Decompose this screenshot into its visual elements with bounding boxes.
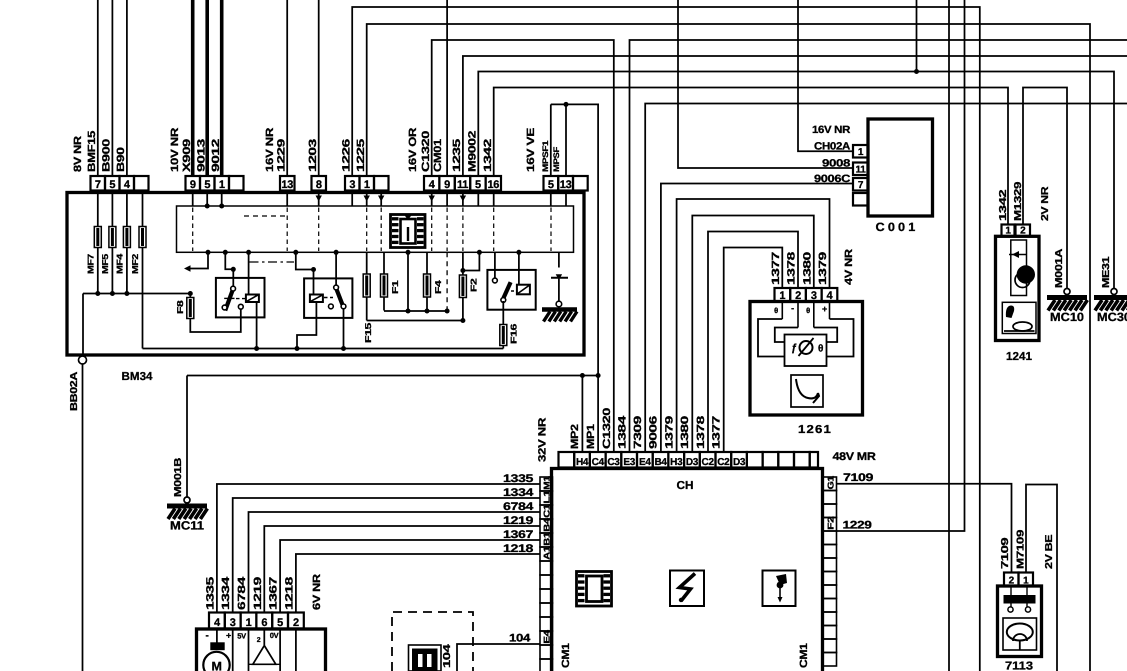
svg-text:C2: C2 [717, 457, 730, 468]
svg-text:9006C: 9006C [814, 173, 851, 185]
svg-text:F1: F1 [390, 280, 400, 294]
svg-text:MP2: MP2 [569, 424, 581, 449]
svg-text:1229: 1229 [843, 520, 872, 532]
CH left connector column [540, 477, 553, 491]
svg-text:1384: 1384 [617, 416, 629, 449]
svg-text:H3: H3 [670, 457, 683, 468]
svg-text:M7109: M7109 [1016, 529, 1027, 569]
wire B900 (pin 5 to top edge) [111, 0, 113, 176]
svg-text:B90: B90 [115, 147, 127, 172]
node dots on inner box bottom edge [206, 250, 211, 255]
svg-text:CH02A: CH02A [814, 141, 851, 153]
wire 6784 (CH to motor unit) [249, 512, 541, 613]
motor M symbol [216, 629, 218, 644]
C001 pin 7 [853, 178, 868, 191]
1261 curve icon box [791, 375, 823, 407]
svg-text:1203: 1203 [307, 139, 319, 172]
node junction on M9002 line [914, 69, 919, 74]
svg-text:M: M [211, 660, 221, 671]
svg-text:5: 5 [475, 179, 481, 191]
C001 blank pin [853, 193, 868, 206]
svg-text:7309: 7309 [632, 416, 644, 449]
svg-text:5: 5 [548, 179, 554, 191]
motor unit internal pin wires [232, 629, 234, 671]
svg-text:D3: D3 [686, 457, 699, 468]
svg-text:BB02A: BB02A [69, 372, 80, 411]
connector pin 13 (16V NR) [280, 176, 295, 191]
wire 7109 (CH pin G1 to 7113 pin 2) [837, 484, 1012, 573]
svg-text:16: 16 [487, 179, 499, 191]
wire MPSF jumper (BM34 pins 5/13 group5 to MP1 riser) [550, 104, 552, 176]
wire 1384 (CH riser to right page edge) [630, 40, 1127, 452]
CH top connector row [559, 452, 575, 468]
svg-text:B4: B4 [542, 518, 552, 532]
relay R2 [304, 278, 352, 318]
wire BB02A down to page bottom [82, 364, 84, 671]
svg-text:1342: 1342 [482, 139, 494, 172]
svg-text:-: - [791, 303, 794, 313]
svg-text:2V NR: 2V NR [1040, 186, 1051, 221]
svg-text:1379: 1379 [664, 416, 676, 449]
connector circle BB02A on BM34 bottom [79, 356, 87, 364]
7113 gauge [1003, 618, 1037, 650]
ground MC10 [1064, 289, 1070, 295]
svg-text:1334: 1334 [503, 487, 535, 499]
wire 9008 (top edge down to C001 pin 11) [678, 0, 853, 168]
svg-text:1261: 1261 [798, 424, 832, 436]
svg-text:E4: E4 [639, 457, 651, 468]
svg-text:5: 5 [277, 617, 283, 629]
pin drops into inner box [192, 191, 194, 207]
wire F8 to relay R1 contact [190, 309, 241, 332]
triangle symbol in motor unit [263, 629, 265, 646]
svg-text:M9002: M9002 [467, 130, 479, 172]
wire link inner box to fuse bus [407, 252, 409, 311]
svg-text:6784: 6784 [503, 501, 535, 513]
motor unit box [197, 629, 326, 671]
node dot MP1 [596, 373, 601, 378]
svg-text:θ: θ [818, 344, 823, 355]
wire X909 stub with arrow below inner box [189, 252, 209, 268]
svg-text:6V NR: 6V NR [311, 573, 323, 610]
svg-text:MPSF1: MPSF1 [541, 140, 550, 172]
svg-text:C001: C001 [876, 220, 919, 234]
1241 arrow symbol [1009, 254, 1026, 256]
wire X909 (pin 9 to top edge, heavy) [191, 0, 195, 176]
wire 1335 (CH to motor unit) [217, 484, 540, 613]
engine control unit CH box [552, 469, 823, 671]
node dot MP2 [580, 373, 585, 378]
node MPSF junction [564, 102, 569, 107]
wire 1367 (CH to motor unit) [280, 540, 540, 613]
C001 pin 11 [853, 163, 868, 176]
wire relay R1 coil return to bus [256, 302, 258, 349]
connector pins 3 1 [345, 176, 360, 191]
svg-text:L1: L1 [542, 490, 552, 504]
svg-text:C3: C3 [607, 457, 620, 468]
fuse MF5 [111, 193, 113, 227]
svg-text:1367: 1367 [268, 577, 280, 610]
wire 1380 (CH riser to 1261 pin 3) [692, 216, 814, 453]
svg-text:1378: 1378 [786, 252, 798, 285]
fuse box BM34 outline [67, 193, 584, 356]
svg-text:1: 1 [246, 617, 252, 629]
svg-text:1380: 1380 [679, 416, 691, 449]
wire feed relay R2 coil [296, 252, 314, 294]
svg-text:13: 13 [281, 179, 293, 191]
svg-text:F2: F2 [826, 516, 836, 530]
internal ground connector inside BM34 [558, 252, 560, 267]
bus F15-F2 [367, 320, 463, 322]
svg-text:5: 5 [109, 179, 115, 191]
svg-text:16V OR: 16V OR [407, 127, 419, 172]
wire 1378 (CH riser to 1261 pin 2) [708, 232, 798, 453]
svg-text:E3: E3 [623, 457, 635, 468]
sensor 104 icon [409, 645, 442, 671]
svg-text:1218: 1218 [283, 577, 295, 610]
svg-text:F15: F15 [363, 322, 373, 343]
svg-text:2: 2 [257, 637, 261, 644]
wire 1225 (BM34 pin 1 to top channel, down at x1090) [367, 24, 1090, 671]
wire 1218 (CH to motor unit) [296, 554, 540, 613]
svg-text:1342: 1342 [998, 189, 1009, 221]
wire 104 (sensor to CH pin E4) [457, 644, 540, 671]
relay R1 [216, 278, 265, 318]
1241 lower chamber [1002, 302, 1036, 333]
svg-text:CM1: CM1 [560, 643, 572, 668]
svg-text:C2: C2 [702, 457, 715, 468]
svg-text:1334: 1334 [220, 577, 232, 610]
svg-text:2V BE: 2V BE [1044, 534, 1055, 569]
wire 1377 (CH riser to 1261 pin 1) [724, 248, 783, 453]
svg-text:7109: 7109 [1000, 537, 1011, 569]
svg-text:16V VE: 16V VE [525, 128, 537, 172]
svg-text:MP1: MP1 [585, 424, 597, 449]
svg-text:9006: 9006 [648, 416, 660, 449]
fuel gauge unit 7113 box [998, 586, 1042, 657]
svg-text:4V NR: 4V NR [843, 248, 855, 285]
chip icon inside BM34 inner box [391, 215, 426, 248]
wire 9012 (pin 1 to top edge, heavy) [220, 0, 224, 176]
pump unit 1241 box [996, 236, 1040, 340]
wire MP1 (down to CH connector) [597, 104, 599, 452]
svg-text:F8: F8 [175, 300, 185, 314]
connector C001 box [868, 119, 933, 216]
7113 pin 1 [1019, 573, 1034, 587]
svg-text:MC10: MC10 [1050, 310, 1084, 324]
wire stub from top edge to M9002 line [916, 0, 918, 72]
svg-text:1219: 1219 [252, 577, 264, 610]
svg-text:M1: M1 [542, 476, 552, 490]
svg-text:ƒ: ƒ [791, 342, 797, 354]
wire C1320 (BM34 pin 4 over to CH connector) [432, 40, 614, 452]
svg-text:1225: 1225 [355, 139, 367, 172]
fuse F16 [500, 325, 507, 346]
svg-text:9: 9 [190, 179, 196, 191]
lightning icon inside CH [670, 571, 704, 607]
svg-text:1367: 1367 [503, 529, 533, 541]
svg-text:1379: 1379 [817, 252, 829, 285]
1241 pin 1 [1002, 225, 1015, 237]
ground MC11 [184, 497, 190, 503]
dashed enclosure for sensor 104 [392, 612, 473, 671]
svg-text:+: + [822, 304, 827, 314]
dashed channels inside inner box [192, 208, 194, 252]
svg-text:MF2: MF2 [130, 253, 140, 274]
wire M001B (MC11 ground to MP1/MP2 risers) [186, 376, 188, 498]
fuse MF2 [142, 193, 144, 227]
wire MP2 down to CH [581, 376, 583, 453]
svg-text:MF5: MF5 [100, 253, 110, 274]
svg-text:6784: 6784 [236, 577, 248, 610]
svg-text:D3: D3 [733, 457, 746, 468]
svg-text:0V: 0V [270, 631, 279, 640]
fuse F4 [426, 252, 428, 274]
svg-text:8V NR: 8V NR [72, 135, 84, 172]
svg-text:1235: 1235 [451, 139, 463, 172]
svg-text:H4: H4 [576, 457, 589, 468]
svg-text:104: 104 [509, 633, 531, 645]
wire 9013 (pin 5 to top edge, heavy) [205, 0, 209, 176]
motor unit connector pins 4 3 1 6 5 2 [209, 613, 225, 629]
svg-text:1377: 1377 [711, 416, 723, 449]
node dots on fuse bus [95, 291, 100, 296]
svg-text:C1320: C1320 [420, 130, 432, 172]
connector group 10V NR pins 9 5 1 [186, 176, 201, 191]
svg-text:X909: X909 [181, 139, 193, 172]
svg-text:F2: F2 [469, 278, 479, 292]
svg-text:13: 13 [560, 179, 572, 191]
svg-text:1: 1 [858, 147, 864, 158]
CH right connector column [823, 477, 837, 491]
C001 pin 1 [853, 145, 868, 158]
svg-text:ME31: ME31 [1101, 256, 1112, 288]
svg-text:1219: 1219 [503, 515, 533, 527]
svg-text:B4: B4 [654, 457, 667, 468]
svg-text:MC11: MC11 [170, 519, 204, 533]
svg-text:9008: 9008 [822, 158, 851, 170]
svg-text:48V MR: 48V MR [833, 451, 876, 463]
svg-text:7113: 7113 [1005, 661, 1033, 671]
svg-text:BMF15: BMF15 [86, 130, 98, 172]
wire relay R2 switch to bottom bus [343, 309, 345, 349]
svg-text:9012: 9012 [210, 139, 222, 172]
svg-text:7109: 7109 [843, 472, 873, 484]
svg-text:MF7: MF7 [86, 253, 96, 274]
wire 1226 (BM34 pin 3 to top channel, down right side) [352, 7, 980, 671]
1241 pin 2 [1016, 225, 1031, 237]
fuse MF7 [97, 193, 99, 227]
wire 1203 (pin 8 to top edge) [318, 0, 320, 176]
chip icon inside CH [577, 572, 612, 607]
svg-text:8: 8 [316, 179, 322, 191]
1241 pump circles [1017, 265, 1035, 283]
svg-text:+: + [226, 631, 231, 641]
1261 center sensor box [785, 335, 827, 367]
svg-text:1229: 1229 [276, 139, 288, 172]
svg-text:32V NR: 32V NR [537, 417, 549, 462]
node dot R1 on bottom bus [254, 346, 259, 351]
relay R3 [487, 270, 535, 310]
wire 1219 (CH to motor unit) [264, 526, 540, 613]
wire 1229 (pin 13 to top edge) [286, 0, 288, 176]
7113 resistive bar [1004, 596, 1035, 604]
1241 inner chamber [1011, 240, 1027, 296]
1261 pin stubs into brackets [781, 302, 783, 320]
wire relay R2 coil return [297, 302, 316, 349]
fuse MF4 [126, 193, 128, 227]
wire BMF15 (pin 7 to top edge) [97, 0, 99, 176]
svg-text:1241: 1241 [1006, 351, 1033, 363]
svg-text:7: 7 [858, 180, 864, 191]
chain link between relays [250, 261, 295, 263]
svg-text:104: 104 [442, 644, 453, 668]
svg-text:M1329: M1329 [1013, 181, 1024, 221]
svg-text:C1320: C1320 [601, 407, 613, 449]
svg-text:F16: F16 [509, 323, 519, 344]
BM34 inner control module box [177, 206, 574, 252]
wire 1379 (CH riser to 1261 pin 4) [677, 199, 830, 452]
svg-text:1: 1 [364, 179, 370, 191]
7113 pin 2 [1004, 573, 1019, 587]
node dot R2 on bottom bus [341, 346, 346, 351]
bottom bus inside BM34 [143, 348, 504, 350]
bus from MF fuses to F8 and BB02A [83, 293, 190, 295]
connector pin 8 [312, 176, 327, 191]
svg-text:3: 3 [349, 179, 355, 191]
svg-text:9013: 9013 [196, 139, 208, 172]
wire 1229 (CH pin F2 to top edge) [837, 0, 965, 531]
dashed link CM01 channel to fuse bus [446, 252, 448, 311]
svg-text:1380: 1380 [802, 252, 814, 285]
svg-text:M001A: M001A [1054, 249, 1065, 288]
wire B90 (pin 4 to top edge) [126, 0, 128, 176]
wire feed relay R3 switch [463, 252, 480, 270]
svg-text:C4: C4 [592, 457, 605, 468]
throttle housing 1261 box [750, 302, 863, 416]
svg-text:A1: A1 [542, 546, 552, 560]
1261 inner bracket [775, 328, 798, 343]
wire CM01 (BM34 pin 9 group4 straight up to top edge) [446, 0, 448, 176]
wire 1334 (CH to motor unit) [233, 498, 540, 613]
wire relay R3 switch to fuse F16 [502, 301, 504, 325]
fuse F8 [189, 294, 191, 298]
svg-text:MPSF: MPSF [552, 147, 561, 172]
wire M7109 (7113 pin 1 down right side) [1026, 485, 1057, 671]
svg-text:1226: 1226 [341, 139, 353, 172]
svg-text:CH: CH [677, 480, 694, 492]
svg-text:C1: C1 [542, 504, 552, 518]
svg-text:5V: 5V [237, 632, 246, 641]
connector group 16V VE pins 5 13 [544, 176, 559, 191]
connector group 8V NR pins 7 5 4 [91, 176, 106, 191]
svg-text:B1: B1 [542, 532, 552, 546]
connector group 16V OR pins 4 9 11 5 16 [424, 176, 439, 191]
ground MC30 [1111, 289, 1117, 295]
connector pins 1 2 3 4 of 1261 [775, 288, 791, 302]
svg-text:16V NR: 16V NR [264, 127, 276, 172]
svg-text:B900: B900 [101, 139, 113, 172]
svg-text:M001B: M001B [173, 458, 184, 497]
svg-text:CM1: CM1 [798, 643, 810, 668]
wire CH02A (top edge down to C001 pin 1) [798, 0, 853, 151]
svg-text:10V NR: 10V NR [169, 127, 181, 172]
svg-text:7: 7 [95, 179, 101, 191]
internal ground symbol [542, 307, 577, 312]
wire 1235 (BM34 pin 11 to right page edge) [463, 56, 1127, 176]
svg-text:1377: 1377 [770, 252, 782, 285]
svg-text:16V NR: 16V NR [812, 124, 851, 136]
svg-text:1378: 1378 [695, 416, 707, 449]
svg-text:BM34: BM34 [122, 371, 154, 383]
wire 1342 (BM34 pin 16 to component 1241 pin 1) [494, 88, 1008, 225]
fuse F1 [383, 252, 385, 274]
svg-text:F4: F4 [433, 280, 443, 294]
fuse F2 [462, 252, 464, 275]
svg-text:E4: E4 [542, 630, 552, 644]
svg-text:θ: θ [806, 306, 810, 315]
node dots on inner box top [205, 204, 210, 209]
dashed detail segment in inner box [244, 215, 287, 217]
svg-text:-: - [205, 631, 208, 642]
wire M1329 (1241 pin 2 to MC10 ground) [1023, 88, 1067, 289]
svg-text:θ: θ [774, 306, 778, 315]
svg-text:5: 5 [204, 179, 210, 191]
svg-text:1218: 1218 [503, 543, 533, 555]
svg-text:MF4: MF4 [115, 253, 125, 274]
wire 9006 / 9006C (CH riser to C001 pin 7) [661, 184, 853, 453]
svg-text:11: 11 [856, 164, 867, 175]
svg-text:3: 3 [230, 617, 236, 629]
svg-text:CM01: CM01 [432, 139, 444, 172]
svg-text:2: 2 [293, 617, 299, 629]
svg-text:1335: 1335 [503, 473, 533, 485]
svg-text:G1: G1 [826, 475, 836, 489]
wire feed relay R1 switch [225, 252, 233, 286]
svg-text:MC30: MC30 [1097, 310, 1127, 324]
svg-text:11: 11 [457, 179, 468, 191]
wire M9002 / ME31 (BM34 pin 5 to MC30 ground) [478, 72, 1114, 289]
svg-text:1335: 1335 [204, 577, 216, 610]
1261 outer bracket [758, 319, 785, 357]
connector diamonds on drops [316, 196, 322, 202]
wire 7309 (CH riser to right page edge) [645, 104, 1127, 453]
svg-text:6: 6 [261, 617, 267, 629]
bus F1-F4 [384, 310, 447, 312]
fuse F15 [366, 252, 368, 274]
svg-text:1: 1 [219, 179, 225, 191]
svg-text:9: 9 [444, 179, 450, 191]
injector icon inside CH [763, 571, 796, 607]
wire pass-through at x949 [948, 0, 950, 671]
